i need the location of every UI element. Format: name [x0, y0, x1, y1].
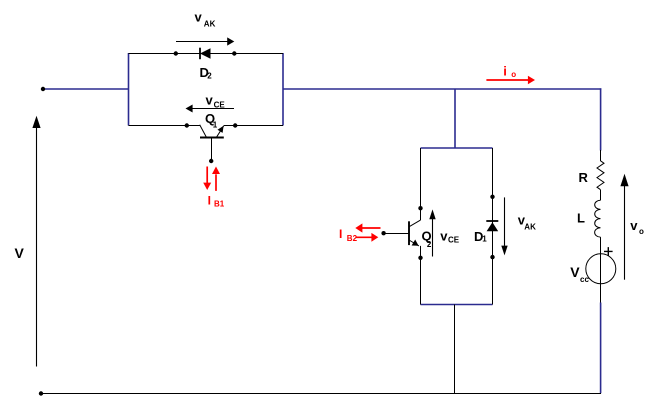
- svg-text:AK: AK: [204, 20, 216, 29]
- arrow I_B2 rightward (red): [356, 236, 372, 238]
- arrow I_B2 leftward (red): [362, 227, 381, 229]
- svg-text:v: v: [195, 10, 203, 25]
- svg-text:L: L: [577, 210, 585, 225]
- svg-text:o: o: [639, 227, 644, 236]
- node bottom-left terminal: [39, 391, 43, 395]
- svg-text:CE: CE: [214, 100, 226, 109]
- wire box2 top edge (navy): [421, 147, 493, 149]
- svg-text:1: 1: [213, 120, 218, 129]
- wire right above resistor: [600, 150, 602, 161]
- transistor Q1 base lead down: [211, 138, 213, 161]
- transistor Q2 emitter lead: [409, 240, 419, 246]
- wire between R and L: [600, 190, 602, 201]
- node Q1 base terminal: [209, 159, 213, 163]
- wire box2 to bottom rail: [454, 305, 456, 394]
- node D2 anode: [232, 51, 236, 55]
- svg-text:I: I: [339, 227, 342, 241]
- wire input left (navy): [43, 88, 129, 90]
- transistor Q2 collector lead: [410, 220, 421, 226]
- wire below inductor through source: [600, 237, 602, 302]
- arrow v_AK top (black, rightward): [176, 41, 228, 43]
- arrow v_o (black, upward): [624, 186, 626, 280]
- node Q2 emitter: [418, 256, 422, 260]
- svg-text:cc: cc: [580, 275, 589, 284]
- transistor Q2 base lead: [384, 233, 409, 235]
- svg-text:V: V: [570, 264, 580, 280]
- node Q2 base terminal: [381, 231, 385, 235]
- transistor Q2 emitter arrowhead: [412, 240, 419, 246]
- wire box2 left edge upper: [420, 148, 422, 220]
- wire right side upper (navy): [600, 88, 602, 150]
- source V_cc circle: [586, 254, 616, 284]
- wire box2 left edge lower: [420, 246, 422, 305]
- svg-text:B1: B1: [214, 200, 225, 209]
- transistor Q2 base bar: [408, 221, 410, 245]
- diode D2 bar: [199, 48, 201, 60]
- svg-text:v: v: [206, 92, 214, 107]
- arrow I_B1 down (red): [206, 167, 208, 184]
- node D1 cathode: [490, 195, 494, 199]
- node D2 cathode: [174, 51, 178, 55]
- wire right side lower (navy): [600, 303, 602, 394]
- wire box1 top branch: [129, 53, 284, 55]
- svg-text:o: o: [511, 70, 516, 79]
- plus sign of source: [604, 247, 613, 256]
- transistor Q1 collector lead: [200, 125, 207, 137]
- node Q1 emitter: [233, 123, 237, 127]
- arrow V source (black, upward): [36, 128, 38, 367]
- svg-text:1: 1: [482, 235, 487, 244]
- wire branch down to box2 (navy): [454, 89, 456, 148]
- transistor Q1 emitter arrowhead: [218, 126, 224, 133]
- svg-text:AK: AK: [524, 223, 536, 232]
- wire box1 right edge (navy): [282, 53, 284, 126]
- svg-text:2: 2: [207, 72, 212, 81]
- wire box2 right edge: [492, 148, 494, 305]
- resistor R: [597, 161, 604, 190]
- node left input terminal: [41, 87, 45, 91]
- arrow I_B1 up (red): [215, 174, 217, 191]
- svg-text:B2: B2: [347, 234, 358, 243]
- wire box1 left edge (navy): [128, 53, 130, 126]
- svg-text:CE: CE: [448, 236, 460, 245]
- node Q2 collector: [418, 206, 422, 210]
- arrow v_AK mid (black, downward): [504, 197, 506, 245]
- wire box1 bottom branch left: [129, 125, 201, 127]
- svg-text:i: i: [503, 64, 507, 79]
- arrow i_o (red, rightward): [486, 79, 528, 81]
- wire box2 bottom edge (navy): [421, 304, 493, 306]
- svg-text:2: 2: [427, 240, 432, 249]
- inductor L: [595, 200, 601, 237]
- svg-text:V: V: [15, 245, 25, 261]
- svg-text:v: v: [630, 218, 638, 233]
- wire bottom rail: [41, 393, 601, 395]
- node Q1 collector: [185, 123, 189, 127]
- transistor Q1 emitter lead: [217, 126, 224, 138]
- arrow v_CE top (black, leftward): [192, 108, 234, 110]
- svg-text:R: R: [579, 170, 589, 185]
- diode D2 triangle: [200, 48, 211, 59]
- node D1 anode: [490, 255, 494, 259]
- wire box1 bottom branch right: [224, 125, 283, 127]
- transistor Q1 base bar: [200, 137, 224, 139]
- wire top main (navy): [283, 88, 601, 90]
- diode D1 triangle: [487, 222, 499, 231]
- diode D1 bar: [486, 220, 498, 222]
- svg-text:I: I: [208, 194, 211, 208]
- arrow v_CE mid (black, upward): [432, 219, 434, 257]
